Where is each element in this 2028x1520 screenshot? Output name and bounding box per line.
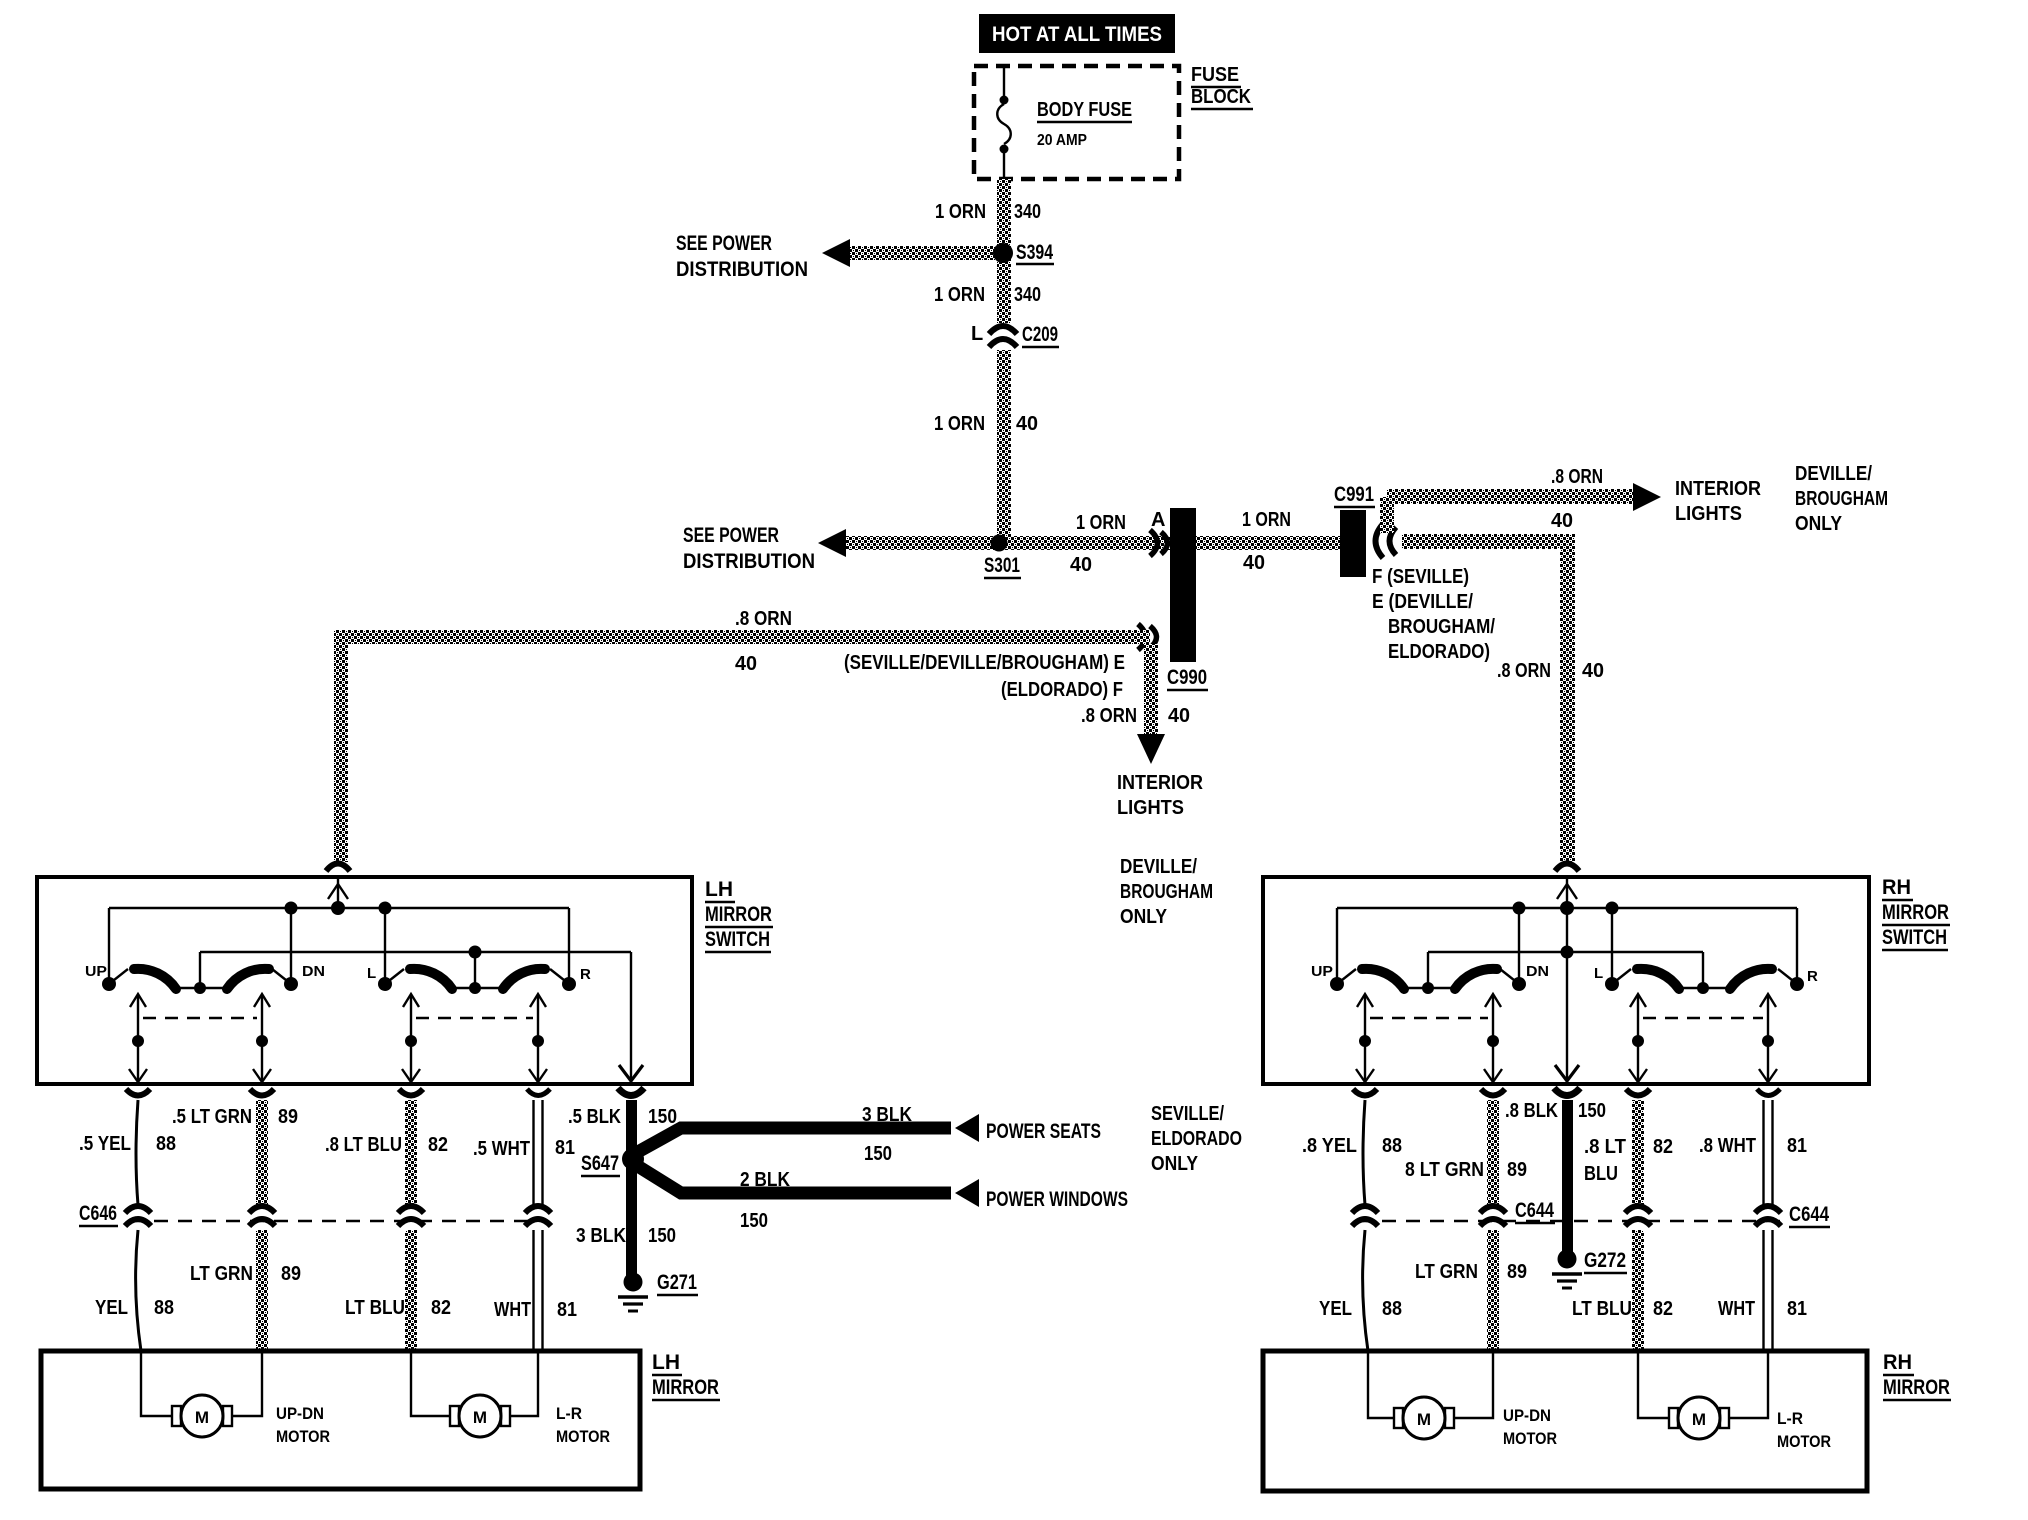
label LH MIRROR SWITCH (705, 878, 773, 952)
arrow POWER WINDOWS (955, 1179, 979, 1207)
LH wiper pole LT BLU (410, 995, 412, 1082)
svg-text:1 ORN: 1 ORN (1242, 509, 1291, 531)
wire LT GRN to RH up-dn motor (1454, 1351, 1493, 1418)
svg-text:ONLY: ONLY (1151, 1153, 1199, 1175)
mechanical link L/R (1643, 1017, 1763, 1019)
svg-text:.5 WHT: .5 WHT (473, 1138, 530, 1160)
svg-text:G272: G272 (1584, 1249, 1626, 1272)
contact arc L (410, 969, 452, 989)
LH switch feed pin arrow (337, 879, 339, 908)
connector C990 (1138, 508, 1208, 690)
wire 2 BLK 150 to power windows (636, 1165, 951, 1193)
svg-text:F (SEVILLE): F (SEVILLE) (1372, 566, 1469, 588)
svg-text:UP: UP (85, 963, 107, 980)
LH mirror switch box (37, 877, 692, 1084)
svg-text:81: 81 (1787, 1135, 1807, 1157)
svg-text:MIRROR: MIRROR (652, 1376, 719, 1399)
svg-text:M: M (1417, 1410, 1431, 1429)
svg-text:.5 BLK: .5 BLK (568, 1106, 621, 1128)
UP/DN common link (1402, 987, 1456, 989)
terminal L (378, 977, 392, 991)
node on top bus right (379, 902, 392, 915)
node second bus (1561, 946, 1574, 959)
LH wiper pole YEL (137, 995, 139, 1082)
RH wiper pole LT GRN (1492, 995, 1494, 1082)
node feed on top bus (1560, 901, 1574, 915)
svg-text:150: 150 (1578, 1100, 1606, 1122)
svg-text:.8 LT: .8 LT (1584, 1136, 1626, 1158)
terminal DN (1512, 977, 1526, 991)
svg-text:YEL: YEL (1319, 1298, 1352, 1320)
svg-text:89: 89 (281, 1263, 301, 1285)
svg-text:150: 150 (864, 1143, 892, 1165)
wire 8 LT GRN 89 upper (1487, 1100, 1499, 1205)
svg-text:G271: G271 (657, 1271, 697, 1294)
svg-text:ELDORADO: ELDORADO (1151, 1128, 1242, 1150)
svg-text:.8 ORN: .8 ORN (1081, 705, 1137, 727)
wire top bus to UP contact (108, 908, 110, 984)
svg-text:A: A (1151, 509, 1165, 531)
wire .8 ORN 40 C991 up to interior lights arrow (1380, 497, 1394, 533)
svg-text:C209: C209 (1022, 323, 1058, 346)
LH mirror box (41, 1351, 640, 1489)
wire second bus to L/R common (474, 952, 476, 988)
svg-text:ONLY: ONLY (1795, 513, 1843, 535)
svg-text:88: 88 (154, 1297, 174, 1319)
svg-text:.8 ORN: .8 ORN (1497, 660, 1551, 682)
svg-text:.8 BLK: .8 BLK (1505, 1100, 1558, 1122)
svg-text:.8 LT BLU: .8 LT BLU (325, 1134, 402, 1156)
LH switch top bus wire (109, 907, 569, 909)
svg-text:40: 40 (1070, 554, 1092, 576)
connector C644 (1352, 1199, 1830, 1227)
svg-text:SEE POWER: SEE POWER (683, 524, 779, 547)
wire .8 ORN 40 C990 to LH mirror switch (long left run) (334, 630, 1150, 644)
svg-text:82: 82 (1653, 1136, 1673, 1158)
svg-text:S647: S647 (581, 1152, 619, 1175)
terminal R (562, 977, 576, 991)
connector cups below LH switch (126, 1089, 150, 1096)
svg-text:1 ORN: 1 ORN (935, 201, 986, 223)
LH l-r motor M (450, 1395, 610, 1446)
svg-text:89: 89 (278, 1106, 298, 1128)
svg-text:BROUGHAM: BROUGHAM (1795, 488, 1888, 510)
contact arc R (503, 969, 545, 989)
svg-text:40: 40 (1168, 705, 1190, 727)
splice S394 (997, 253, 1011, 323)
connector C991 (1334, 483, 1396, 577)
svg-text:MOTOR: MOTOR (276, 1427, 330, 1446)
wire LT BLU 82 lower (405, 1230, 417, 1351)
svg-text:LT GRN: LT GRN (1415, 1261, 1478, 1283)
svg-text:BROUGHAM: BROUGHAM (1120, 881, 1213, 903)
svg-text:R: R (580, 966, 591, 983)
contact arc DN (1455, 969, 1497, 989)
svg-text:.5 LT GRN: .5 LT GRN (172, 1106, 252, 1128)
wire top bus to R contact (1796, 908, 1798, 984)
svg-text:DEVILLE/: DEVILLE/ (1795, 463, 1872, 485)
svg-text:89: 89 (1507, 1261, 1527, 1283)
RH up-dn motor M (1394, 1397, 1557, 1448)
svg-text:20 AMP: 20 AMP (1037, 132, 1087, 149)
wire .8 ORN 40 C990 down to interior lights arrow (1144, 644, 1158, 734)
svg-text:8 LT GRN: 8 LT GRN (1405, 1159, 1484, 1181)
arrow left (top) (822, 239, 850, 267)
svg-text:C990: C990 (1167, 666, 1207, 689)
wire top bus to DN contact (290, 908, 292, 984)
label RH MIRROR SWITCH (1882, 876, 1950, 950)
svg-text:82: 82 (428, 1134, 448, 1156)
wire .5 WHT 81 upper (532, 1100, 534, 1206)
svg-text:YEL: YEL (95, 1297, 128, 1319)
svg-text:82: 82 (431, 1297, 451, 1319)
svg-text:MOTOR: MOTOR (1503, 1429, 1557, 1448)
ground G271 (618, 1271, 698, 1311)
svg-text:SWITCH: SWITCH (1882, 926, 1947, 949)
wire LT BLU 82 lower RH (1632, 1230, 1644, 1351)
terminal DN (284, 977, 298, 991)
wire .8 YEL 88 upper (1363, 1100, 1365, 1205)
wire YEL to LH up-dn motor (141, 1351, 172, 1416)
wire top bus to UP contact (1336, 908, 1338, 984)
svg-text:C646: C646 (79, 1202, 117, 1225)
svg-text:LT BLU: LT BLU (1572, 1298, 1632, 1320)
node on top bus right (1606, 902, 1619, 915)
svg-text:150: 150 (648, 1106, 677, 1128)
wire top bus to L contact (384, 908, 386, 984)
svg-text:DN: DN (1526, 963, 1549, 980)
svg-text:SEVILLE/: SEVILLE/ (1151, 1103, 1224, 1125)
terminal UP (1330, 977, 1344, 991)
RH switch second bus wire (1428, 951, 1703, 953)
terminal L (1605, 977, 1619, 991)
svg-text:LT BLU: LT BLU (345, 1297, 405, 1319)
wire WHT to RH l-r motor (1729, 1351, 1768, 1418)
svg-text:BODY FUSE: BODY FUSE (1037, 99, 1132, 121)
svg-text:89: 89 (1507, 1159, 1527, 1181)
fuse block dashed box (974, 66, 1179, 179)
wire LT GRN 89 lower RH (1487, 1230, 1499, 1351)
LH wiper pole WHT (537, 995, 539, 1082)
contact arc UP (1362, 969, 1404, 989)
wire .8 BLK 150 (1562, 1100, 1573, 1259)
svg-text:SWITCH: SWITCH (705, 928, 770, 951)
wire WHT to LH l-r motor (510, 1351, 538, 1416)
svg-text:DISTRIBUTION: DISTRIBUTION (683, 550, 815, 573)
svg-text:L-R: L-R (556, 1404, 582, 1423)
mechanical link L/R (416, 1017, 533, 1019)
svg-text:2 BLK: 2 BLK (740, 1169, 790, 1191)
svg-text:FUSE: FUSE (1191, 64, 1239, 86)
wire YEL 88 lower (136, 1230, 141, 1351)
ground exit arrow RH (1555, 1065, 1579, 1081)
svg-text:RH: RH (1882, 876, 1911, 899)
svg-text:40: 40 (1016, 413, 1038, 435)
wire 1 ORN 40 C990 to C991 (1196, 536, 1340, 550)
svg-text:(ELDORADO) F: (ELDORADO) F (1001, 679, 1123, 701)
svg-text:L-R: L-R (1777, 1409, 1803, 1428)
connector C646 (79, 1202, 551, 1226)
svg-text:40: 40 (1551, 510, 1573, 532)
contact arc L (1637, 969, 1679, 989)
svg-text:LIGHTS: LIGHTS (1117, 797, 1184, 819)
wire .8 LT BLU 82 upper (1632, 1100, 1644, 1205)
UP/DN common link (174, 987, 228, 989)
svg-text:LT GRN: LT GRN (190, 1263, 253, 1285)
splice S301 (999, 536, 1170, 550)
node on top bus (1513, 902, 1526, 915)
svg-text:82: 82 (1653, 1298, 1673, 1320)
svg-text:.5 YEL: .5 YEL (79, 1133, 131, 1155)
svg-text:C644: C644 (1515, 1199, 1554, 1222)
RH mirror switch box (1263, 877, 1869, 1084)
terminal UP (102, 977, 116, 991)
svg-text:POWER SEATS: POWER SEATS (986, 1120, 1101, 1143)
svg-text:340: 340 (1014, 201, 1041, 223)
wire LT BLU to RH l-r motor (1638, 1351, 1669, 1418)
svg-text:S301: S301 (984, 554, 1020, 577)
wire YEL to RH up-dn motor (1368, 1351, 1394, 1418)
RH wiper pole LT BLU (1637, 995, 1639, 1082)
RH mirror box (1263, 1351, 1867, 1491)
svg-text:3 BLK: 3 BLK (862, 1104, 912, 1126)
body fuse 20 AMP (997, 66, 1132, 179)
wire .8 WHT 81 upper (1762, 1100, 1764, 1206)
svg-text:WHT: WHT (494, 1299, 531, 1321)
L/R common link (450, 987, 504, 989)
arrow left (middle) (818, 529, 846, 557)
contact arc DN (227, 969, 269, 989)
wire WHT 81 lower RH (1762, 1230, 1764, 1351)
RH wiper pole WHT (1767, 995, 1769, 1082)
svg-text:E (DEVILLE/: E (DEVILLE/ (1372, 591, 1473, 613)
splice S647 (622, 1148, 644, 1170)
svg-text:88: 88 (156, 1133, 176, 1155)
svg-text:LIGHTS: LIGHTS (1675, 503, 1742, 525)
LH up-dn motor M (172, 1395, 330, 1446)
svg-text:M: M (473, 1408, 487, 1427)
label RH MIRROR (1883, 1351, 1951, 1400)
ground exit arrow LH (619, 1065, 643, 1081)
svg-text:88: 88 (1382, 1298, 1402, 1320)
svg-text:UP-DN: UP-DN (276, 1404, 324, 1423)
RH switch center wire to ground exit (1566, 908, 1568, 1082)
connector cups below RH switch (1353, 1089, 1377, 1096)
label LH MIRROR (652, 1351, 720, 1400)
wire second bus to L/R common (1702, 952, 1704, 988)
wire .8 LT BLU 82 upper (405, 1100, 417, 1205)
svg-text:40: 40 (735, 653, 757, 675)
svg-text:150: 150 (648, 1225, 676, 1247)
wire YEL 88 lower RH (1363, 1230, 1368, 1351)
wire LT GRN to LH up-dn motor (232, 1351, 262, 1416)
RH wiper pole YEL (1364, 995, 1366, 1082)
svg-text:POWER WINDOWS: POWER WINDOWS (986, 1188, 1128, 1211)
svg-text:M: M (195, 1408, 209, 1427)
svg-text:RH: RH (1883, 1351, 1912, 1374)
contact arc UP (134, 969, 176, 989)
svg-text:BLU: BLU (1584, 1163, 1618, 1185)
svg-text:MIRROR: MIRROR (1882, 901, 1949, 924)
svg-text:.8 WHT: .8 WHT (1699, 1135, 1756, 1157)
wire top bus to L contact (1611, 908, 1613, 984)
wire .5 YEL 88 upper (136, 1100, 138, 1205)
wire LT BLU to LH l-r motor (411, 1351, 450, 1416)
svg-text:SEE POWER: SEE POWER (676, 232, 772, 255)
svg-text:LH: LH (652, 1351, 680, 1374)
wire 3 BLK 150 to power seats (636, 1128, 951, 1153)
wire second bus to UP/DN common (199, 952, 201, 988)
wire top bus to DN contact (1518, 908, 1520, 984)
svg-text:WHT: WHT (1718, 1298, 1755, 1320)
node feed on top bus (331, 901, 345, 915)
arrow POWER SEATS (955, 1114, 979, 1142)
wire 1 ORN 40 C209 to S301 (997, 350, 1011, 543)
svg-text:L: L (1594, 965, 1603, 982)
RH l-r motor M (1669, 1397, 1831, 1451)
wire LT GRN 89 lower (256, 1230, 268, 1351)
svg-text:HOT AT ALL TIMES: HOT AT ALL TIMES (992, 23, 1162, 46)
svg-text:ELDORADO): ELDORADO) (1388, 641, 1490, 663)
svg-text:40: 40 (1243, 552, 1265, 574)
svg-text:88: 88 (1382, 1135, 1402, 1157)
LH wiper pole LT GRN (261, 995, 263, 1082)
svg-text:DEVILLE/: DEVILLE/ (1120, 856, 1197, 878)
mechanical link UP/DN (143, 1017, 257, 1019)
wire .5 LT GRN 89 upper (256, 1100, 268, 1205)
node on top bus (285, 902, 298, 915)
svg-text:UP-DN: UP-DN (1503, 1406, 1551, 1425)
svg-text:R: R (1807, 968, 1818, 985)
node second bus (469, 946, 482, 959)
svg-text:3 BLK: 3 BLK (576, 1225, 626, 1247)
svg-text:81: 81 (1787, 1298, 1807, 1320)
wire top bus to R contact (568, 908, 570, 984)
wire to SEE POWER DISTRIBUTION (top) (848, 246, 1003, 260)
terminal R (1790, 977, 1804, 991)
svg-text:1 ORN: 1 ORN (1076, 512, 1126, 534)
mechanical link UP/DN (1370, 1017, 1488, 1019)
svg-text:81: 81 (557, 1299, 577, 1321)
wire second bus to UP/DN common (1427, 952, 1429, 988)
svg-text:MOTOR: MOTOR (556, 1427, 610, 1446)
svg-text:MIRROR: MIRROR (705, 903, 772, 926)
ground G272 (1552, 1249, 1627, 1288)
wire to SEE POWER DISTRIBUTION (middle) (844, 536, 999, 550)
svg-text:.8 ORN: .8 ORN (735, 608, 792, 630)
svg-text:BLOCK: BLOCK (1191, 86, 1251, 108)
svg-text:C991: C991 (1334, 483, 1374, 506)
wire WHT 81 lower (532, 1230, 534, 1351)
wire .8 ORN 40 C991 to RH mirror switch (1402, 534, 1574, 549)
connector cup at RH switch feed (1555, 864, 1579, 872)
svg-text:150: 150 (740, 1210, 768, 1232)
svg-text:INTERIOR: INTERIOR (1675, 478, 1761, 500)
svg-text:40: 40 (1582, 660, 1604, 682)
contact arc R (1730, 969, 1772, 989)
svg-text:BROUGHAM/: BROUGHAM/ (1388, 616, 1495, 638)
svg-text:UP: UP (1311, 963, 1333, 980)
connector C209 (971, 323, 1059, 347)
label FUSE BLOCK (1191, 64, 1253, 109)
svg-text:MIRROR: MIRROR (1883, 1376, 1950, 1399)
svg-text:L: L (367, 965, 376, 982)
wire 1 ORN 340 fuse to S394 (997, 179, 1011, 253)
RH switch feed pin arrow (1566, 879, 1568, 908)
svg-text:S394: S394 (1016, 241, 1053, 264)
label HOT AT ALL TIMES (979, 14, 1175, 53)
svg-text:M: M (1692, 1410, 1706, 1429)
arrow right to interior lights (1633, 483, 1661, 511)
connector cup at LH switch feed (326, 864, 350, 872)
svg-text:L: L (971, 323, 983, 345)
LH switch second bus wire (200, 951, 631, 953)
svg-text:1 ORN: 1 ORN (934, 413, 985, 435)
svg-text:340: 340 (1014, 284, 1041, 306)
wire .5 BLK 150 (626, 1100, 637, 1282)
svg-text:.8 ORN: .8 ORN (1551, 466, 1603, 488)
svg-text:DISTRIBUTION: DISTRIBUTION (676, 258, 808, 281)
svg-text:ONLY: ONLY (1120, 906, 1168, 928)
svg-text:LH: LH (705, 878, 733, 901)
svg-text:(SEVILLE/DEVILLE/BROUGHAM) E: (SEVILLE/DEVILLE/BROUGHAM) E (844, 652, 1125, 674)
wire second bus to ground exit (630, 952, 632, 1082)
L/R common link (1677, 987, 1731, 989)
svg-text:C644: C644 (1789, 1203, 1829, 1226)
svg-text:81: 81 (555, 1137, 575, 1159)
svg-text:DN: DN (302, 963, 325, 980)
svg-text:1 ORN: 1 ORN (934, 284, 985, 306)
svg-text:INTERIOR: INTERIOR (1117, 772, 1203, 794)
svg-text:.8 YEL: .8 YEL (1302, 1135, 1357, 1157)
svg-text:MOTOR: MOTOR (1777, 1432, 1831, 1451)
RH switch top bus wire (1337, 907, 1797, 909)
